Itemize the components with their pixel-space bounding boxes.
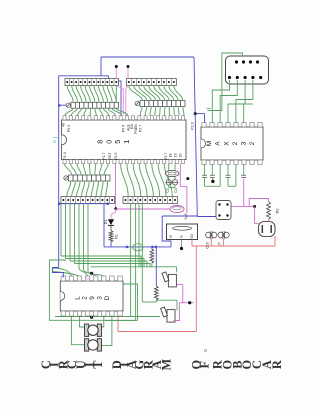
svg-text:P2.7: P2.7 <box>139 125 143 132</box>
junction above L293D <box>90 272 93 276</box>
label net 0 on left rail <box>52 138 58 143</box>
svg-text:P3.0: P3.0 <box>114 153 118 160</box>
motor driver U2 L293D <box>60 276 123 316</box>
wire bus J1 to RN1 <box>67 86 116 103</box>
wire J4 down 2 <box>105 204 136 321</box>
svg-text:3: 3 <box>97 296 104 300</box>
capacitor C3 <box>172 180 177 185</box>
svg-text:L: L <box>74 296 81 300</box>
svg-text:P1.0: P1.0 <box>63 152 67 159</box>
labels U1 top pins <box>62 122 195 134</box>
wire GND under J3 <box>58 202 109 205</box>
motor M1 <box>85 324 102 336</box>
wire red rail horizontal <box>192 245 275 247</box>
label C1 <box>185 214 187 219</box>
wire sensors feed 2 <box>66 259 145 267</box>
connector P1 DB9 <box>226 56 269 84</box>
label R1 <box>115 234 119 239</box>
label U2 L293D <box>74 295 111 300</box>
connector header J4 <box>123 197 178 204</box>
wire green frame <box>49 260 137 320</box>
switch SW1 <box>216 201 231 220</box>
svg-text:40: 40 <box>62 123 66 127</box>
wire frame to L293D pins <box>53 268 80 278</box>
svg-text:D: D <box>104 295 111 300</box>
wire 7805 out red <box>191 240 193 247</box>
svg-text:2: 2 <box>82 296 89 300</box>
capacitor C1 reset <box>170 206 184 213</box>
wire bus RN2 to 8051 <box>140 107 184 116</box>
svg-text:PSEN: PSEN <box>134 124 138 134</box>
svg-text:VI: VI <box>169 235 173 238</box>
wire 7805 in blue <box>162 216 197 247</box>
smudge <box>204 349 206 351</box>
junction below L293D <box>90 316 93 319</box>
wire Q1 emitter red <box>274 236 276 246</box>
transistor Q1 <box>259 222 276 237</box>
label EN above <box>86 277 90 279</box>
svg-text:2: 2 <box>249 141 256 145</box>
regulator U4 7805 <box>167 224 198 240</box>
sensor IR2 <box>161 307 175 322</box>
wire blue drop to LED net <box>103 204 105 247</box>
svg-text:P1.7: P1.7 <box>102 153 106 160</box>
svg-text:P0.5: P0.5 <box>122 125 126 132</box>
svg-text:R2: R2 <box>276 209 280 214</box>
wire DB9 pin2 <box>220 80 237 123</box>
diode D1 LED <box>108 219 114 230</box>
resistor network RN3 <box>64 175 110 181</box>
wire RST vertical <box>114 164 117 211</box>
svg-text:T: T <box>91 360 105 369</box>
svg-text:9: 9 <box>89 296 96 300</box>
svg-text:RST: RST <box>108 152 112 160</box>
wire VCC right rail <box>194 57 197 217</box>
connector header J3 <box>61 197 115 204</box>
wire J4 down 1 <box>130 204 132 317</box>
svg-text:19: 19 <box>174 154 178 158</box>
wire IR2 out <box>174 303 180 321</box>
wire reset-net stub A <box>115 65 118 79</box>
wire IR1 out <box>177 285 183 303</box>
wire pink to LED <box>111 209 116 219</box>
resistor R1 <box>109 231 113 242</box>
label C3 <box>174 188 178 193</box>
capacitor C8 <box>241 165 246 178</box>
resistor R3 <box>150 247 154 267</box>
label C16 <box>206 242 210 248</box>
title CIRCUIT DIAGRAM OF ROBOCAR <box>39 359 284 371</box>
wire J4 down 3 <box>138 204 140 267</box>
svg-text:P3.7: P3.7 <box>164 153 168 160</box>
wire cap to switch <box>231 179 244 207</box>
capacitor C16 <box>206 231 217 239</box>
wire VCC header-gap drop <box>109 76 122 116</box>
wire VCC top rail <box>101 57 194 76</box>
connector header J1 <box>65 79 119 86</box>
svg-text:C16: C16 <box>206 242 210 248</box>
wire RST to C1 <box>116 208 171 210</box>
wire blue to SW1 <box>197 216 216 218</box>
wire switch to R2 <box>244 199 269 209</box>
wire J4 down 4 <box>141 204 143 303</box>
svg-text:A: A <box>215 141 222 146</box>
svg-text:C2: C2 <box>166 188 170 193</box>
wire VCC into L293D <box>53 268 64 278</box>
wire M1 left <box>80 316 85 327</box>
svg-text:5: 5 <box>113 140 122 144</box>
svg-text:2: 2 <box>232 141 239 145</box>
svg-text:18: 18 <box>169 154 173 158</box>
svg-text:R: R <box>270 360 284 369</box>
wire bus J3 down <box>61 204 88 272</box>
svg-text:P2.0: P2.0 <box>191 122 195 129</box>
svg-text:C3: C3 <box>174 188 178 193</box>
label D1 <box>104 220 108 225</box>
wire sensors feed 1 <box>61 256 141 267</box>
resistor R4 <box>154 286 158 300</box>
wire red to L293D <box>118 311 196 332</box>
label U1 8051 <box>96 140 131 144</box>
wire J3 to L293D pins <box>79 268 104 278</box>
wire M1 right <box>102 316 104 327</box>
wire DB9 pin4 <box>236 80 253 123</box>
wire bus 8051 P3 to header J4 <box>121 164 173 197</box>
wire R2 to Q1 <box>268 220 270 222</box>
wire IR node <box>179 301 193 304</box>
resistor network RN2 <box>135 101 185 107</box>
wire cap join <box>205 165 221 187</box>
wire MAX232 pin6 <box>244 104 253 123</box>
wire sensors feed 4 <box>75 264 151 267</box>
wire to Q1 base <box>255 206 259 223</box>
svg-text:X: X <box>223 141 230 146</box>
wire DB9 pin3 <box>228 80 245 123</box>
connector header J2 <box>126 79 176 86</box>
wire R4 feed <box>155 247 157 287</box>
wire VCC to MAX232 <box>194 112 205 123</box>
svg-text:R1: R1 <box>115 234 119 239</box>
wire VCC left branch <box>59 76 109 268</box>
wire green box bottom <box>142 300 177 311</box>
wire bus J2 to RN2 <box>129 86 183 101</box>
capacitor C5 <box>210 165 215 184</box>
wire cap stubs red <box>211 239 223 247</box>
svg-text:1: 1 <box>122 140 131 144</box>
wire RST up <box>180 164 187 214</box>
wire DB9 pin5 <box>207 53 243 111</box>
svg-text:P0.3: P0.3 <box>67 125 71 132</box>
resistor R2 <box>267 202 271 220</box>
wire hop <box>133 244 143 251</box>
capacitor C7 <box>218 231 229 239</box>
wire DB9 pin1 <box>212 80 229 123</box>
wire blue bottom rail <box>104 246 171 249</box>
wire pink pair between headers <box>116 86 128 116</box>
svg-text:8: 8 <box>96 140 105 144</box>
label C7 <box>218 242 222 246</box>
svg-text:0: 0 <box>104 140 113 144</box>
wire bus RN3 to header J3 <box>67 181 108 197</box>
capacitor C2 <box>166 180 171 185</box>
junction dot <box>186 177 189 180</box>
svg-text:M: M <box>159 359 173 371</box>
resistor network RN1 <box>66 102 118 108</box>
wire M2 left <box>71 316 84 345</box>
wire bus RN1 to 8051 <box>65 108 128 115</box>
motor M2 <box>85 339 102 351</box>
wire XTAL1 <box>168 164 170 180</box>
wire sensors feed 3 <box>70 261 147 267</box>
wire IR1 top <box>176 267 178 273</box>
wire stub RN1 to left rail <box>58 104 66 107</box>
wire crystal gnd <box>169 185 175 188</box>
wire reset-net stub B <box>127 65 130 79</box>
labels U1 bottom pins <box>63 152 183 160</box>
label U3 MAX232 <box>206 141 256 147</box>
wire red rail down <box>195 246 197 332</box>
svg-text:3: 3 <box>241 141 248 145</box>
wire cap join 2 <box>228 165 236 187</box>
svg-text:D1: D1 <box>104 220 108 225</box>
wire sensor frame top <box>91 266 177 268</box>
svg-text:VO: VO <box>190 234 194 239</box>
wire M2 right <box>102 316 112 346</box>
wire XTAL2 <box>174 164 176 180</box>
microcontroller U1 8051 <box>62 116 187 164</box>
wire bottom green rail <box>55 316 160 318</box>
wire bus 8051 P1 to RN3 <box>65 164 109 175</box>
label C2 <box>166 188 170 193</box>
wire R1 to blue rail <box>110 242 112 247</box>
svg-text:M: M <box>206 141 213 147</box>
capacitor C4 <box>202 165 207 187</box>
crystal X1 <box>165 170 179 176</box>
svg-text:E: E <box>86 277 90 279</box>
svg-text:F: F <box>197 361 211 369</box>
svg-text:20: 20 <box>179 154 183 158</box>
capacitor C6 <box>226 165 231 187</box>
label R2 <box>276 209 280 214</box>
rs232 driver U3 MAX232 <box>201 123 263 165</box>
sensor IR1 <box>162 272 176 287</box>
wire 7805 gnd stub <box>180 240 183 251</box>
